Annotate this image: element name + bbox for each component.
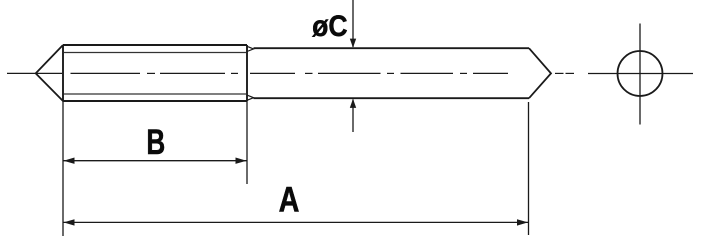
arrow B left: [64, 158, 75, 164]
arrow A left: [64, 219, 75, 225]
svg-text:A: A: [279, 180, 300, 219]
transition chamfer bottom: [247, 95, 254, 100]
arrow C down: [350, 39, 356, 48]
transition chamfer top: [247, 46, 254, 51]
shank top line: [254, 47, 530, 49]
thread root line bottom: [64, 93, 246, 95]
cone tip left: [36, 45, 63, 101]
dimension line B: [64, 160, 247, 162]
dimension C upper line: [352, 0, 354, 47]
dimension line A: [64, 221, 529, 223]
dimension C lower line: [352, 100, 354, 133]
centerline left segment: [7, 72, 62, 74]
end view circle: [618, 51, 663, 96]
thread root line top: [64, 52, 246, 54]
extension line left (B/A): [62, 101, 64, 236]
svg-text:B: B: [146, 122, 165, 162]
threaded body outline: [63, 45, 247, 101]
centerline dash-dot main: [71, 72, 575, 74]
extension line right A: [528, 102, 530, 235]
arrow C up: [350, 99, 356, 108]
cone tip right: [529, 48, 551, 98]
end view horizontal centerline: [588, 73, 693, 75]
svg-text:øC: øC: [312, 10, 347, 44]
shank bottom line: [254, 97, 530, 99]
arrow A right: [517, 219, 528, 225]
arrow B right: [236, 158, 247, 164]
extension line right B: [246, 101, 248, 184]
end view vertical centerline: [639, 24, 641, 125]
